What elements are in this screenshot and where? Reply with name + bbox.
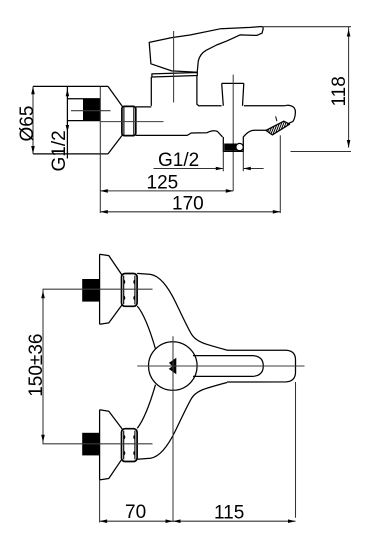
diverter centerline xyxy=(232,75,234,191)
lower arm outer edge xyxy=(137,383,227,460)
escutcheon taper edges xyxy=(108,86,123,153)
svg-text:170: 170 xyxy=(172,194,204,215)
svg-text:Ø65: Ø65 xyxy=(17,106,38,142)
svg-text:125: 125 xyxy=(147,173,179,194)
spout end extension line xyxy=(295,382,297,518)
nipple centerline xyxy=(71,110,111,112)
bottom union centerline xyxy=(43,443,153,445)
nut facets xyxy=(124,107,134,135)
dim 170 extension xyxy=(279,135,281,213)
bottom escutcheon xyxy=(100,410,123,480)
dim 125 line xyxy=(100,190,233,192)
dim 70 arrows xyxy=(100,519,173,523)
logo mark xyxy=(169,358,177,375)
diverter knob xyxy=(222,83,244,105)
top hex nut xyxy=(122,274,138,307)
wall nipple thread (black) xyxy=(83,99,100,121)
aerator nozzle xyxy=(266,121,290,135)
dim 115 arrows xyxy=(173,519,296,523)
dim 118 line xyxy=(348,27,350,148)
svg-text:115: 115 xyxy=(214,503,244,524)
lower arm inner edge xyxy=(137,385,155,429)
stub thread (black) xyxy=(224,144,237,151)
dim 118 bottom extension xyxy=(291,151,352,153)
spout inner outline xyxy=(193,356,263,377)
spout right end xyxy=(285,105,296,124)
svg-text:G1/2: G1/2 xyxy=(158,150,199,171)
bottom nut facets xyxy=(124,431,135,460)
shower G1/2 extension lines xyxy=(223,151,243,171)
upper arm outer edge xyxy=(137,273,227,350)
svg-text:70: 70 xyxy=(125,502,146,523)
spout outer pill xyxy=(227,350,296,382)
top nut facets xyxy=(124,276,135,305)
dim Ø65 arrows xyxy=(31,86,35,153)
wall-face extension line xyxy=(99,86,101,213)
dim 170 line xyxy=(100,211,280,213)
upper arm inner edge xyxy=(137,306,155,349)
dim 118 arrows xyxy=(347,29,351,148)
escutcheon bottom line xyxy=(33,153,108,155)
svg-text:118: 118 xyxy=(329,76,350,106)
shower G1/2 dim lines xyxy=(154,168,264,170)
body top edges xyxy=(136,106,285,107)
shower G1/2 arrows xyxy=(216,167,251,171)
top nipple (black) xyxy=(82,279,99,302)
handle cap ring xyxy=(152,73,197,78)
center body circle xyxy=(149,342,198,391)
top escutcheon xyxy=(100,254,123,324)
dim 118 top extension xyxy=(262,26,352,28)
hex nut (side view) xyxy=(122,106,136,135)
cartridge housing xyxy=(151,76,199,107)
body axis centerline xyxy=(101,121,164,123)
svg-text:G1/2: G1/2 xyxy=(49,130,70,171)
bottom hex nut xyxy=(122,429,138,462)
G1/2 arrows on face line xyxy=(66,89,70,132)
dim 70/115 line xyxy=(100,520,296,522)
escutcheon extension line xyxy=(99,480,101,523)
stub check valve circle xyxy=(236,143,243,150)
bottom nipple (black) xyxy=(82,433,99,456)
dim 150±36 arrows xyxy=(41,291,45,443)
dim Ø65 line xyxy=(32,86,34,153)
dim 170 arrows xyxy=(100,210,280,214)
dim 125 arrows xyxy=(100,189,233,193)
body bottom edge xyxy=(136,131,223,137)
top union centerline xyxy=(43,288,153,290)
dim 150±36 line xyxy=(42,289,44,444)
handle lever outline xyxy=(149,27,263,73)
shower outlet stub xyxy=(223,130,266,151)
escutcheon face / G1/2 dim line xyxy=(66,86,68,158)
escutcheon (section) top line xyxy=(33,85,108,87)
svg-text:150±36: 150±36 xyxy=(26,334,47,397)
handle centerline xyxy=(173,31,175,103)
nozzle tick xyxy=(276,116,277,121)
vertical centerline xyxy=(172,336,174,522)
wall nipple outline xyxy=(67,99,100,121)
horizontal centerline xyxy=(137,365,304,367)
